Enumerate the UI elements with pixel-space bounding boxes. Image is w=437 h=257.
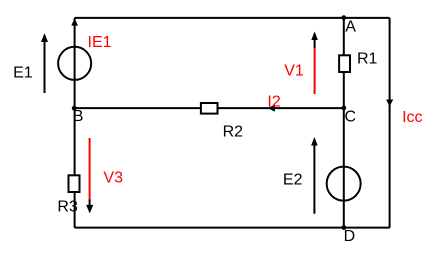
node B xyxy=(72,106,77,111)
svg-text:R3: R3 xyxy=(57,199,78,216)
arrow V1 (red, up with black head) xyxy=(311,32,318,95)
resistor R2 xyxy=(201,103,218,114)
arrow E2 (emf direction, up) xyxy=(311,137,318,214)
node C xyxy=(341,106,346,111)
svg-text:C: C xyxy=(345,109,357,126)
node A xyxy=(341,15,346,20)
voltage source E1 (circle) xyxy=(58,47,91,80)
voltage source E2 (circle) xyxy=(327,167,361,201)
svg-text:A: A xyxy=(345,19,356,36)
wire middle horizontal (B-R2-C) xyxy=(75,107,344,109)
svg-text:V1: V1 xyxy=(284,62,304,79)
svg-text:R1: R1 xyxy=(357,51,378,68)
node D xyxy=(342,225,347,230)
svg-text:D: D xyxy=(344,228,356,245)
wire middle column (A-R1-C-E2-D) xyxy=(343,18,345,228)
svg-text:E1: E1 xyxy=(13,65,33,82)
arrow E1 (emf direction, up) xyxy=(41,33,48,93)
wire right outer (Icc branch) xyxy=(389,18,391,228)
svg-text:I2: I2 xyxy=(267,93,280,110)
svg-text:E2: E2 xyxy=(283,171,303,188)
svg-text:R2: R2 xyxy=(223,124,244,141)
wire bottom (D row) xyxy=(75,227,390,229)
svg-text:B: B xyxy=(73,108,84,125)
current arrowhead I2 on middle wire xyxy=(268,105,275,112)
wire top (A row) xyxy=(75,17,390,19)
current arrowhead Icc on right wire xyxy=(386,100,393,107)
resistor R1 xyxy=(339,55,350,72)
svg-text:V3: V3 xyxy=(103,169,123,186)
svg-text:Icc: Icc xyxy=(402,109,422,126)
wire left branch (E1-B-R3) xyxy=(74,18,76,228)
current arrowhead IE1 on left wire xyxy=(71,18,78,25)
resistor R3 xyxy=(69,175,80,192)
arrow V3 (red, down with black head) xyxy=(86,138,93,213)
svg-text:IE1: IE1 xyxy=(88,34,112,51)
